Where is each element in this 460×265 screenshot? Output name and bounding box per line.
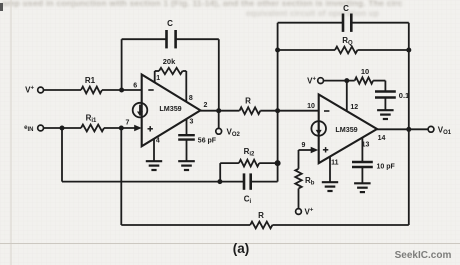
wire Ri1 to pin 7 arrow	[104, 127, 136, 129]
wire 56pF to ground	[186, 140, 188, 162]
resistor R (overall feedback)	[250, 222, 272, 229]
svg-text:6: 6	[133, 82, 137, 89]
wire Rb to V+ terminal	[298, 189, 300, 209]
node U2 output junction	[406, 127, 411, 132]
wire 10 pF to ground	[361, 167, 363, 184]
terminal eIN (signal input)	[38, 125, 44, 131]
U2 minus sign	[324, 110, 329, 112]
svg-text:SeekIC.com: SeekIC.com	[395, 250, 452, 261]
wire Ri2 left stub	[219, 163, 221, 182]
wire feedback node down	[120, 128, 122, 225]
node Ri2 right junction	[275, 160, 281, 166]
ground (0.1 cap)	[377, 109, 394, 111]
svg-text:9: 9	[302, 142, 306, 149]
svg-text:(a): (a)	[233, 241, 250, 256]
pin 9 wire and arrow into U2 + input	[299, 149, 313, 151]
resistor Ri2	[239, 160, 259, 167]
svg-text:2: 2	[204, 102, 208, 109]
resistor R (U1 out to U2 in)	[240, 107, 261, 114]
node eIN branch junction	[60, 126, 65, 131]
svg-text:C: C	[167, 19, 173, 28]
svg-text:8: 8	[189, 95, 193, 102]
wire R to pin 10	[260, 110, 318, 112]
svg-text:0.1: 0.1	[399, 91, 409, 100]
wire eIN branch down	[61, 128, 63, 182]
wire across to Ci node	[62, 181, 244, 183]
node feedback junction (bottom R)	[119, 126, 124, 131]
pin 7 arrow into U1 + input	[134, 125, 142, 132]
pin 14 output wire of U2	[377, 128, 428, 130]
svg-text:13: 13	[362, 142, 370, 149]
capacitor 56 pF (pin 3 compensation)	[178, 134, 195, 136]
U2 plus sign	[323, 149, 328, 151]
wire bottom right run	[272, 224, 408, 226]
svg-text:10 pF: 10 pF	[377, 163, 396, 170]
node pin 12 junction	[344, 78, 349, 83]
svg-text:10: 10	[361, 67, 369, 76]
capacitor 0.1 (decoupling)	[375, 90, 396, 92]
capacitor C (op-amp U1 feedback)	[122, 38, 167, 40]
svg-text:14: 14	[378, 135, 386, 142]
wire right riser (C/RQ to output to bottom R)	[408, 23, 410, 225]
pin 3 wire	[186, 119, 188, 136]
svg-text:12: 12	[350, 104, 358, 111]
wire bottom left run	[121, 224, 250, 226]
terminal V+ (Rb bias supply)	[296, 209, 302, 215]
wire V+ to resistor 10	[324, 80, 355, 82]
terminal V+ (left supply input)	[38, 87, 44, 93]
wire 0.1 to ground	[384, 98, 386, 111]
svg-text:R: R	[245, 97, 251, 106]
node RQ right junction	[406, 48, 411, 53]
U1 current source symbol	[133, 103, 148, 118]
capacitor Ci	[243, 173, 246, 189]
svg-text:11: 11	[331, 160, 339, 167]
pin 2 output wire of U1	[200, 110, 239, 112]
terminal VO2	[216, 128, 222, 134]
resistor 10 (supply decoupling)	[355, 77, 373, 83]
node RQ left junction	[275, 48, 280, 53]
wire C down to U1 output node	[218, 39, 220, 111]
svg-text:3: 3	[190, 119, 194, 126]
pin 4 wire to ground	[153, 139, 155, 162]
svg-text:10: 10	[307, 103, 315, 110]
svg-text:C: C	[343, 4, 349, 13]
node U1 output junction	[216, 108, 221, 113]
ground (U2 pin 11)	[322, 181, 338, 183]
pin 12 wire	[346, 81, 348, 112]
U1 minus sign	[148, 89, 153, 91]
svg-text:R: R	[258, 211, 264, 220]
node Ci left junction	[217, 179, 222, 184]
svg-text:LM359: LM359	[335, 125, 357, 134]
wire left riser to C/RQ	[277, 23, 279, 182]
capacitor C (top right integrator)	[278, 22, 343, 24]
ground (U1 pin 4)	[146, 160, 162, 162]
svg-text:56 pF: 56 pF	[198, 138, 217, 145]
resistor RQ	[278, 49, 335, 51]
svg-text:4: 4	[156, 138, 160, 145]
svg-text:7: 7	[126, 119, 130, 126]
resistor R1	[81, 87, 102, 94]
wire to VO2 terminal	[218, 111, 220, 129]
resistor 20k (U1 gain set, pin 1 to pin 8)	[154, 71, 156, 83]
wire Ri2 to junction	[259, 162, 277, 164]
terminal V+ (U2 supply)	[318, 78, 324, 84]
pin 13 wire	[361, 138, 363, 163]
wire node A up to C	[121, 39, 123, 90]
svg-text:1: 1	[156, 75, 160, 82]
op-amp U1 LM359 triangle	[142, 75, 201, 147]
svg-text:20k: 20k	[163, 57, 176, 66]
pin 11 wire to ground	[329, 157, 331, 183]
ground (10 pF)	[354, 182, 371, 184]
wire eIN to Ri1	[44, 127, 82, 129]
svg-text:LM359: LM359	[159, 104, 181, 113]
node A junction (R1, C, pin 6)	[119, 88, 124, 93]
wire R1 to node A / pin 6	[102, 89, 142, 91]
U2 current source symbol	[311, 121, 326, 136]
resistor Rb (bias)	[295, 169, 301, 189]
U1 plus sign	[148, 128, 153, 130]
resistor Ri1	[81, 125, 104, 132]
ground (56 pF)	[178, 160, 195, 162]
op-amp U2 LM359 triangle	[319, 95, 377, 164]
wire 10 to 0.1 cap	[373, 80, 385, 82]
svg-text:R1: R1	[85, 76, 96, 85]
terminal VO1	[428, 126, 434, 132]
capacitor 10 pF (pin 13 compensation)	[352, 161, 373, 163]
node mid vertical junction	[275, 108, 280, 113]
wire V+ to R1	[44, 89, 82, 91]
